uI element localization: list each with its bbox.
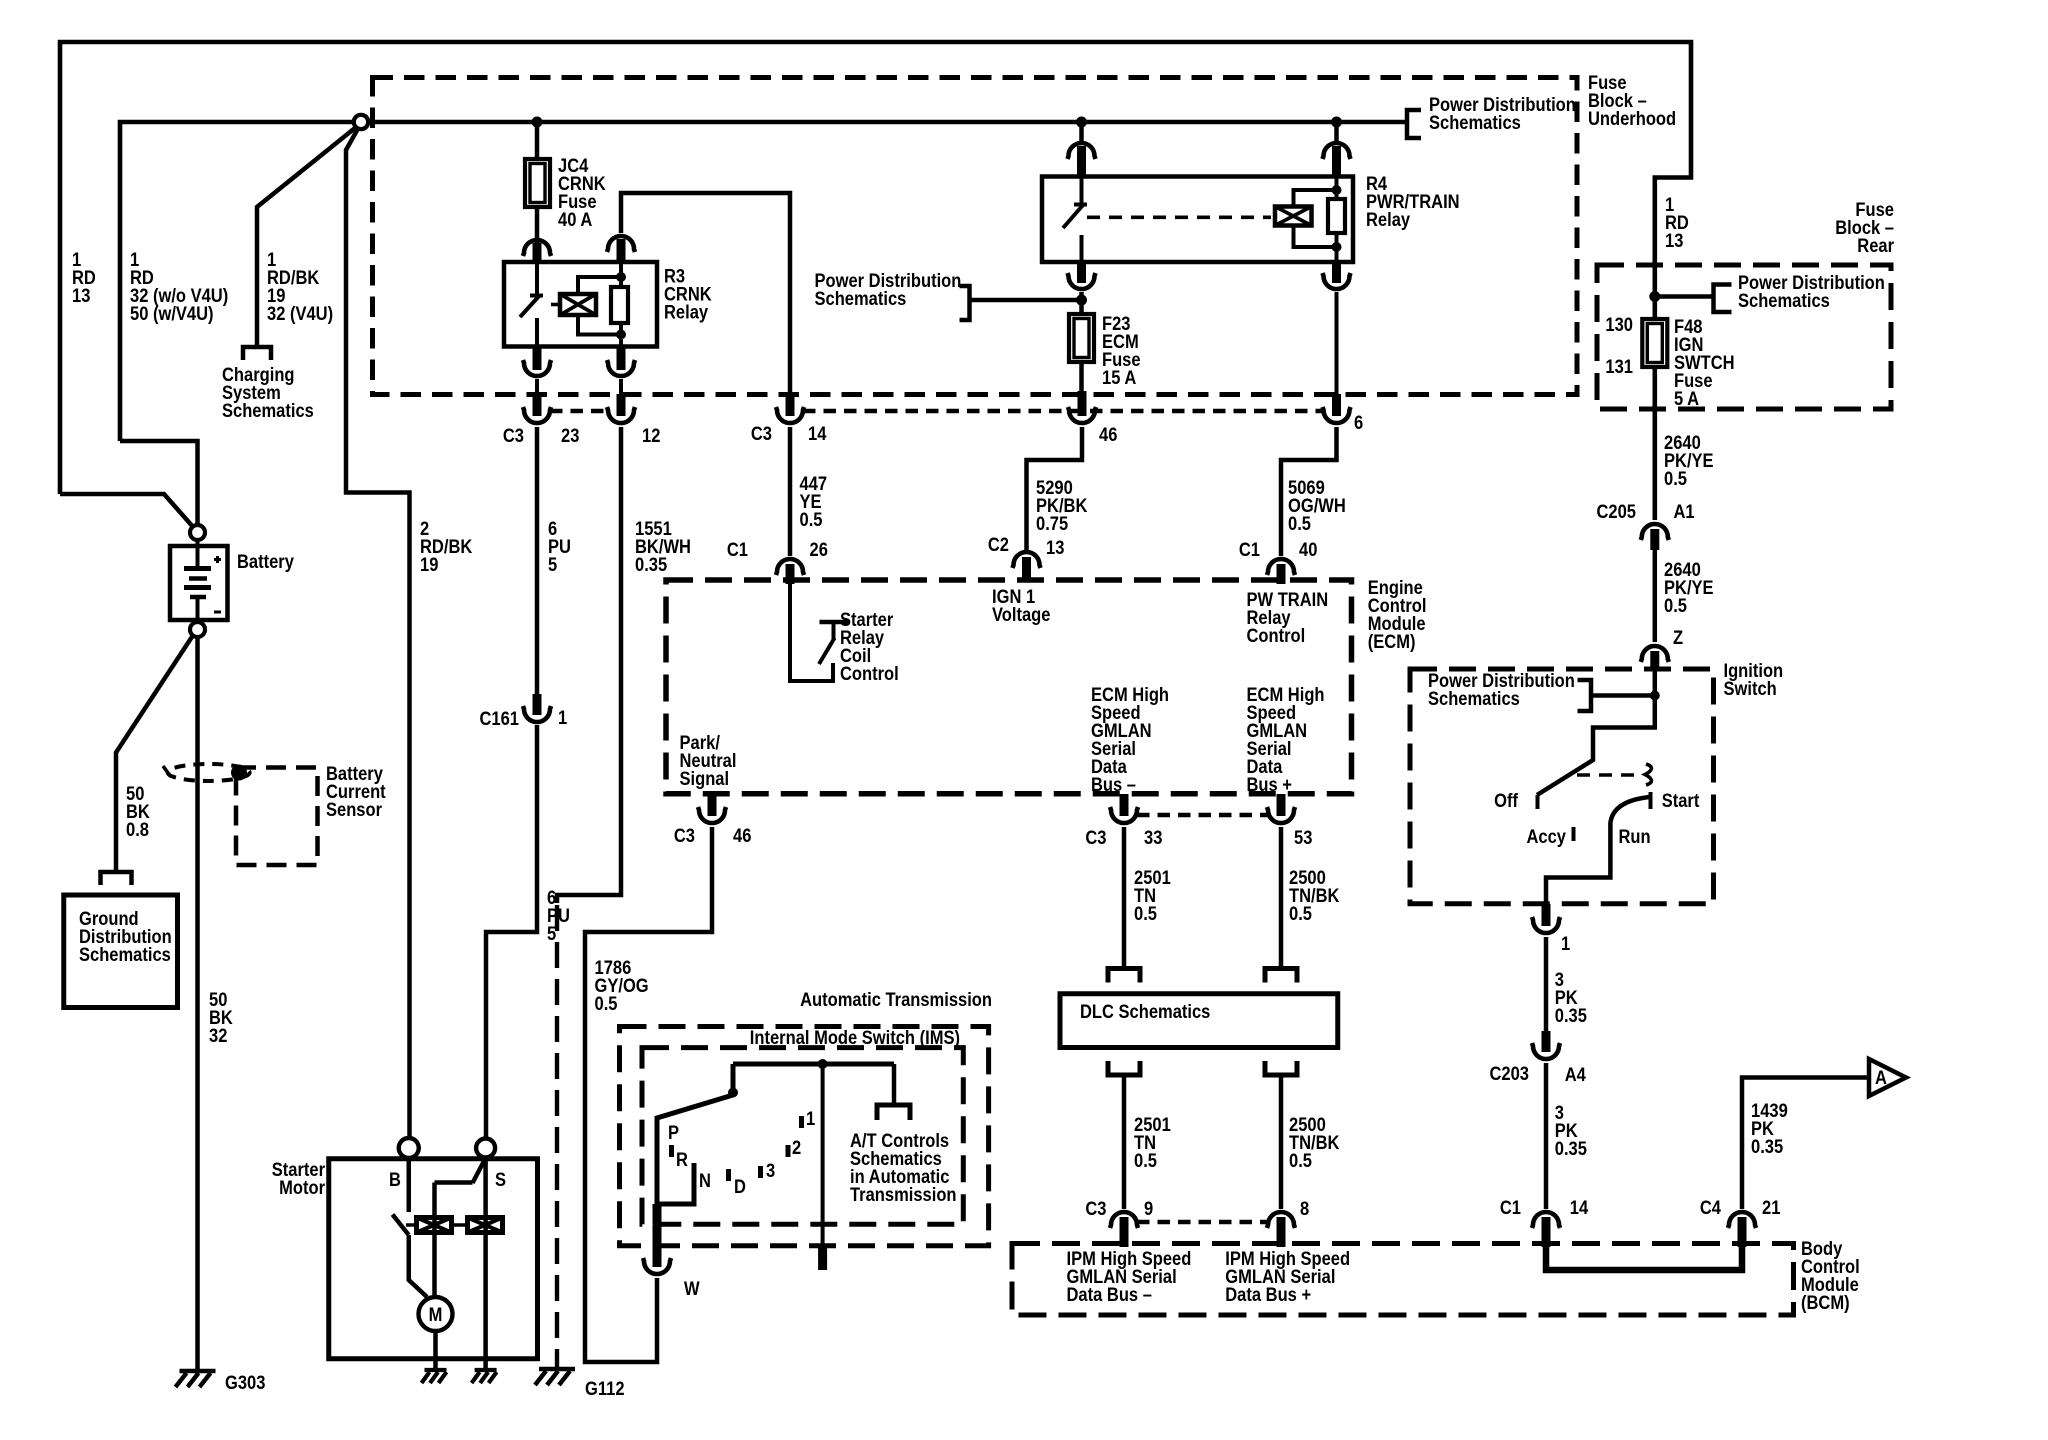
wire 1551 BK/WH 0.35 <box>557 427 621 903</box>
wire bus to R4 coil pin <box>1334 124 1339 145</box>
bracket power distribution schematics (bus end) <box>1407 110 1421 138</box>
terminal B (open circle) <box>399 1138 419 1158</box>
connector C2 pin 13 <box>1013 552 1041 568</box>
IMS sense line <box>821 1064 825 1246</box>
svg-text:C161: C161 <box>480 708 520 729</box>
connector C1 pin 26 <box>776 559 804 575</box>
svg-text:C205: C205 <box>1597 501 1637 522</box>
junction dot F23 feed <box>1076 295 1087 306</box>
wire battery positive to bus (node drop) <box>120 441 198 526</box>
svg-text:0.5: 0.5 <box>595 993 618 1014</box>
svg-text:A1: A1 <box>1674 501 1695 522</box>
dashed connector line C3 right <box>803 409 1323 413</box>
svg-text:13: 13 <box>72 285 90 306</box>
svg-text:5 A: 5 A <box>1674 388 1699 409</box>
bracket charging system schematics reference <box>243 347 271 360</box>
wire 447 YE 0.5 <box>788 427 793 556</box>
battery B+ junction node (open circle on bus) <box>354 115 368 129</box>
junction dot R3 coil top <box>616 272 626 282</box>
IMS right drop to A/T bracket <box>892 1064 897 1105</box>
bracket DLC input left <box>1108 969 1140 983</box>
connector C3 pin 9 <box>1110 1212 1138 1228</box>
svg-text:14: 14 <box>1570 1197 1588 1218</box>
svg-text:Accy: Accy <box>1527 826 1567 847</box>
off-page connector A (triangle) <box>1869 1059 1906 1096</box>
IMS top rail <box>733 1062 894 1067</box>
svg-text:M: M <box>429 1304 443 1325</box>
svg-text:0.5: 0.5 <box>1289 903 1312 924</box>
svg-text:0.75: 0.75 <box>1036 513 1068 534</box>
bracket DLC input right <box>1265 969 1297 983</box>
connector C3 pin 46 (F23 output) <box>1078 391 1087 416</box>
svg-text:Relay: Relay <box>1366 209 1410 230</box>
svg-text:A4: A4 <box>1565 1064 1586 1085</box>
svg-text:19: 19 <box>420 554 438 575</box>
connector C1 pin 40 <box>1267 559 1295 575</box>
wire bus to fuse JC4 <box>535 124 540 243</box>
wire bracket to ignition feed <box>1591 693 1655 698</box>
IMS selector blade to P <box>657 1095 733 1204</box>
svg-text:G303: G303 <box>225 1372 266 1393</box>
svg-text:131: 131 <box>1605 356 1633 377</box>
ground under S wire <box>475 1368 497 1372</box>
wire F23 feed through fuse <box>1079 292 1084 392</box>
svg-text:S: S <box>495 1169 506 1190</box>
bracket A/T controls reference <box>877 1105 910 1120</box>
module Starter Motor (box) <box>329 1159 538 1359</box>
wire 1 RD 13 into battery node (diagonal) <box>60 494 194 528</box>
svg-text:Underhood: Underhood <box>1588 108 1676 129</box>
svg-text:32: 32 <box>209 1025 227 1046</box>
bracket ground distribution reference <box>101 872 132 885</box>
svg-text:(BCM): (BCM) <box>1801 1292 1850 1313</box>
wire battery positive feed 1 RD 13 (top bus, left drop to battery node) <box>60 42 1691 520</box>
svg-text:Start: Start <box>1662 790 1700 811</box>
svg-text:0.5: 0.5 <box>1134 1150 1157 1171</box>
svg-text:C3: C3 <box>1085 1198 1106 1219</box>
node battery negative terminal (open circle) <box>190 622 205 637</box>
svg-text:0.5: 0.5 <box>1288 513 1311 534</box>
wire motor to ground <box>433 1331 438 1369</box>
svg-text:Control: Control <box>1247 625 1306 646</box>
junction dot R3 coil bottom <box>616 330 626 340</box>
svg-text:G112: G112 <box>585 1378 625 1399</box>
connector C203 pin A4 <box>1542 1031 1551 1052</box>
svg-text:40: 40 <box>1299 539 1317 560</box>
relay R4 linkage (dashed) <box>1087 216 1271 220</box>
IMS left corner drop <box>731 1064 736 1090</box>
svg-text:0.35: 0.35 <box>1555 1138 1587 1159</box>
svg-text:Schematics: Schematics <box>1428 688 1520 709</box>
relay R3 switch <box>535 262 539 296</box>
svg-text:Z: Z <box>1673 627 1683 648</box>
svg-text:Internal Mode Switch (IMS): Internal Mode Switch (IMS) <box>750 1027 960 1048</box>
svg-text:13: 13 <box>1665 230 1683 251</box>
relay R4 coil wiring <box>1294 190 1337 207</box>
connector pin 53 <box>1277 794 1286 816</box>
solenoid linkage dashes <box>406 1223 468 1226</box>
box Fuse Block - Rear (dashed) <box>1597 265 1891 409</box>
box Automatic Transmission (dashed) <box>620 1027 989 1246</box>
svg-text:N: N <box>699 1170 711 1191</box>
svg-text:A: A <box>1875 1067 1887 1088</box>
svg-text:Off: Off <box>1494 790 1518 811</box>
battery current sensor clamp (dashed ellipse) <box>168 764 250 781</box>
svg-text:26: 26 <box>810 539 828 560</box>
wire node to charging system (1 RD/BK 19) <box>257 128 355 345</box>
wire node to starter B terminal 2 RD/BK 19 <box>346 130 410 1139</box>
wire 1786 GY/OG 0.5 to IMS <box>585 827 712 1362</box>
starter solenoid switch <box>407 1158 412 1212</box>
svg-text:0.35: 0.35 <box>635 554 667 575</box>
ignition linkage squiggle <box>1645 764 1651 785</box>
svg-text:B: B <box>389 1169 401 1190</box>
svg-text:Control: Control <box>840 663 899 684</box>
svg-text:W: W <box>684 1278 700 1299</box>
svg-text:46: 46 <box>733 825 751 846</box>
fuse F23 ECM Fuse 15 A <box>1069 314 1094 362</box>
wire to G112 (dashed) <box>555 905 559 1368</box>
pin connector into R4 (right) <box>1323 143 1351 159</box>
wire IMS P to W connector <box>653 1204 662 1224</box>
ground under motor <box>425 1368 447 1372</box>
svg-text:DLC Schematics: DLC Schematics <box>1080 1001 1210 1022</box>
pin R3 bottom right with arc <box>617 347 626 371</box>
connector C3 pin 23 <box>533 394 542 416</box>
pin R4 bottom right with arc <box>1332 262 1341 283</box>
connector C3 pin 33 <box>1120 794 1129 816</box>
svg-text:Run: Run <box>1619 826 1651 847</box>
svg-text:15 A: 15 A <box>1102 367 1136 388</box>
svg-text:D: D <box>734 1176 746 1197</box>
junction dot R4 coil feed <box>1331 117 1342 128</box>
svg-text:C1: C1 <box>1500 1197 1521 1218</box>
svg-text:Voltage: Voltage <box>992 604 1051 625</box>
svg-text:C3: C3 <box>751 423 772 444</box>
svg-text:0.35: 0.35 <box>1751 1136 1783 1157</box>
box Ground Distribution Schematics <box>64 895 178 1008</box>
ignition Off contact <box>1536 795 1540 809</box>
bracket power distribution schematics (F23 feed) <box>960 286 970 320</box>
ignition Run contact curve <box>1546 797 1650 905</box>
connector C3 pin 46 (PNP) <box>708 794 717 816</box>
wire BCM internal link 14-21 <box>1546 1247 1742 1270</box>
svg-text:C1: C1 <box>727 539 748 560</box>
svg-text:0.8: 0.8 <box>126 819 149 840</box>
pin connector into R3 (left) <box>523 240 551 256</box>
svg-text:Motor: Motor <box>279 1177 325 1198</box>
wire 3 PK 0.35 (lower) <box>1544 1063 1549 1209</box>
battery current sensor clamp tip <box>163 766 171 777</box>
bracket DLC output right <box>1265 1061 1297 1075</box>
svg-text:Battery: Battery <box>237 551 294 572</box>
connector C3 pin 6 (R4 output) <box>1332 394 1341 416</box>
svg-text:Signal: Signal <box>680 768 730 789</box>
motor M (circle) <box>419 1297 453 1331</box>
svg-text:Data Bus +: Data Bus + <box>1225 1284 1311 1305</box>
wire 6 PU 5 lower to starter S <box>486 725 537 1138</box>
ignition Start contact <box>1649 792 1653 809</box>
module Body Control Module BCM (dashed box) <box>1012 1244 1794 1316</box>
bracket DLC output left <box>1108 1061 1140 1075</box>
pin connector into R3 (right) <box>607 236 635 252</box>
junction dot R4 coil top <box>1332 185 1342 195</box>
wire 6 PU 5 upper <box>535 427 540 694</box>
svg-text:0.5: 0.5 <box>1664 595 1687 616</box>
connector C1 pin 14 (BCM) <box>1532 1212 1560 1228</box>
ground G303 <box>180 1369 216 1374</box>
junction dot ignition feed <box>1650 691 1660 701</box>
box Fuse Block - Underhood (dashed) <box>373 78 1578 395</box>
wire 2501 TN 0.5 (lower) <box>1122 1075 1127 1209</box>
svg-text:13: 13 <box>1046 537 1064 558</box>
box Internal Mode Switch IMS (dashed) <box>642 1048 963 1225</box>
fuse JC4 CRNK Fuse 40 A <box>525 159 550 207</box>
terminal S (open circle) <box>476 1139 495 1158</box>
ignition linkage (dashed) <box>1577 773 1641 777</box>
wire 3 PK 0.35 (upper) <box>1544 937 1549 1032</box>
svg-text:1: 1 <box>1561 933 1570 954</box>
connector C3 pin 14 <box>786 394 795 416</box>
svg-text:C3: C3 <box>1085 827 1106 848</box>
wire 2500 TN/BK 0.5 (lower) <box>1279 1075 1284 1209</box>
wire battery negative 50 BK 32 to G303 <box>195 637 200 1369</box>
pin R4 bottom left with arc <box>1077 262 1086 283</box>
svg-text:3: 3 <box>766 1160 775 1181</box>
svg-text:2: 2 <box>792 1137 801 1158</box>
connector C205 pin A1 <box>1641 524 1669 540</box>
svg-text:Schematics: Schematics <box>1738 290 1830 311</box>
starter solenoid pull-in winding (X-box) <box>417 1218 452 1233</box>
wire 2500 TN/BK 0.5 (upper) <box>1279 827 1284 966</box>
pin connector into R4 (left) <box>1068 143 1096 159</box>
battery Battery <box>170 546 228 620</box>
connector W <box>653 1246 662 1267</box>
svg-text:Sensor: Sensor <box>326 799 382 820</box>
svg-text:Relay: Relay <box>664 301 708 322</box>
wire battery negative 50 BK 0.8 to ground distribution <box>116 635 194 871</box>
svg-text:Schematics: Schematics <box>815 288 907 309</box>
ignition Accy contact tick <box>1572 827 1576 841</box>
svg-text:P: P <box>668 1122 679 1143</box>
wire bracket to F23 junction <box>970 298 1082 303</box>
svg-text:Schematics: Schematics <box>222 400 314 421</box>
relay R4 coil (X-box) <box>1275 207 1312 226</box>
connector ignition switch pin Z <box>1641 646 1669 662</box>
svg-text:5: 5 <box>548 554 557 575</box>
starter solenoid hold-in winding (X-box) <box>468 1218 503 1233</box>
svg-text:Automatic Transmission: Automatic Transmission <box>800 989 992 1010</box>
wire 5069 OG/WH 0.5 <box>1281 427 1337 556</box>
svg-text:Rear: Rear <box>1857 235 1894 256</box>
svg-text:0.5: 0.5 <box>800 509 823 530</box>
svg-text:8: 8 <box>1300 1198 1309 1219</box>
dashed connector line C3 left <box>550 409 608 413</box>
ignition switch blade (to Off) <box>1537 671 1655 795</box>
svg-text:0.5: 0.5 <box>1134 903 1157 924</box>
connector C3 pin 12 <box>617 394 626 416</box>
svg-text:50 (w/V4U): 50 (w/V4U) <box>130 303 214 324</box>
resistor R3 internal <box>611 287 628 323</box>
svg-text:14: 14 <box>808 423 826 444</box>
ground G112 <box>539 1367 575 1372</box>
junction dot JC4 branch <box>532 117 543 128</box>
wire bus to R4 switch pin <box>1079 124 1084 145</box>
IMS position ticks <box>669 1145 674 1157</box>
box DLC Schematics <box>1060 994 1338 1048</box>
bracket power distribution schematics (ignition) <box>1578 680 1592 711</box>
svg-text:Bus +: Bus + <box>1247 774 1292 795</box>
svg-text:(ECM): (ECM) <box>1368 631 1416 652</box>
battery current sensor junction dot <box>231 765 247 781</box>
svg-text:R: R <box>676 1149 688 1170</box>
connector ignition output pin 1 <box>1542 904 1551 926</box>
wire S to ground <box>483 1158 488 1370</box>
node battery positive terminal (open circle) <box>190 525 205 540</box>
module Ignition Switch (dashed box) <box>1410 669 1714 904</box>
module Engine Control Module ECM (dashed box) <box>666 580 1352 794</box>
junction dot F48 feed <box>1649 291 1660 302</box>
bracket power distribution schematics (fuse block rear) <box>1714 285 1732 313</box>
svg-text:130: 130 <box>1605 314 1633 335</box>
dashed connector line 9-8 <box>1137 1220 1268 1224</box>
relay R4 switch <box>1080 177 1084 206</box>
relay R3 CRNK Relay (box) <box>504 262 657 347</box>
svg-text:0.35: 0.35 <box>1555 1005 1587 1026</box>
svg-text:1: 1 <box>558 707 567 728</box>
svg-text:C4: C4 <box>1700 1197 1721 1218</box>
starter relay coil control switch symbol <box>790 584 833 681</box>
svg-text:6: 6 <box>1354 412 1363 433</box>
svg-text:21: 21 <box>1762 1197 1780 1218</box>
svg-text:C3: C3 <box>503 425 524 446</box>
starter S blade <box>435 1158 486 1296</box>
junction dot R4 switch feed <box>1076 117 1087 128</box>
connector C161 pin 1 <box>533 694 542 715</box>
relay R3 coil (X-box) <box>560 294 596 315</box>
svg-text:Schematics: Schematics <box>1429 112 1521 133</box>
svg-text:32 (V4U): 32 (V4U) <box>267 303 333 324</box>
svg-text:40 A: 40 A <box>558 209 592 230</box>
svg-text:Schematics: Schematics <box>79 944 171 965</box>
svg-text:23: 23 <box>561 425 579 446</box>
wire battery feed bus 2 (1 RD 32) to fuse blocks <box>120 122 1407 441</box>
svg-text:0.5: 0.5 <box>1289 1150 1312 1171</box>
svg-text:Transmission: Transmission <box>850 1184 957 1205</box>
wire 2501 TN 0.5 (upper) <box>1122 827 1127 966</box>
svg-text:C2: C2 <box>988 534 1009 555</box>
junction dot R4 coil bottom <box>1332 242 1342 252</box>
svg-text:33: 33 <box>1144 827 1162 848</box>
wire R3 pin 12 riser to 447 wire <box>621 193 790 395</box>
svg-text:53: 53 <box>1294 827 1312 848</box>
dashed connector line 33-53 <box>1137 813 1268 817</box>
fuse F48 IGN SWTCH Fuse 5 A <box>1642 319 1667 367</box>
svg-text:C1: C1 <box>1239 539 1260 560</box>
relay R4 PWR/TRAIN Relay (box) <box>1042 177 1353 263</box>
svg-text:C3: C3 <box>674 825 695 846</box>
junction dot IMS pivot <box>728 1088 738 1098</box>
wire 1439 PK 0.35 <box>1742 1078 1869 1210</box>
svg-text:Switch: Switch <box>1724 678 1777 699</box>
svg-text:C203: C203 <box>1490 1063 1530 1084</box>
box Battery Current Sensor (dashed) <box>236 768 318 866</box>
svg-text:12: 12 <box>642 425 660 446</box>
svg-text:9: 9 <box>1144 1198 1153 1219</box>
relay R3 coil wiring <box>578 277 621 294</box>
pin R3 bottom left with arc <box>533 347 542 371</box>
svg-text:0.5: 0.5 <box>1664 468 1687 489</box>
resistor R4 internal <box>1328 199 1345 233</box>
svg-text:Data Bus –: Data Bus – <box>1067 1284 1152 1305</box>
svg-text:Bus –: Bus – <box>1091 774 1136 795</box>
svg-text:46: 46 <box>1099 424 1117 445</box>
connector C4 pin 21 (BCM) <box>1728 1212 1756 1228</box>
wire 5290 PK/BK 0.75 <box>1027 427 1083 550</box>
svg-text:1: 1 <box>806 1108 815 1129</box>
junction dot IMS sense tap <box>818 1059 828 1069</box>
connector pin 8 <box>1267 1212 1295 1228</box>
